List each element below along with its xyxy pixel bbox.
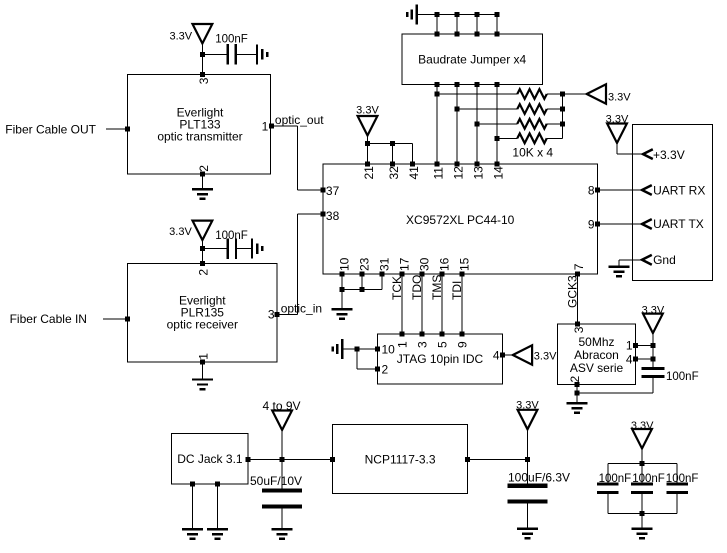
svg-text:100nF: 100nF	[666, 371, 699, 383]
svg-text:3: 3	[197, 77, 211, 84]
svg-text:2: 2	[382, 362, 389, 376]
svg-text:2: 2	[197, 269, 211, 276]
svg-text:38: 38	[326, 209, 340, 223]
svg-text:12: 12	[452, 166, 466, 180]
svg-text:XC9572XL PC44-10: XC9572XL PC44-10	[406, 213, 515, 227]
svg-text:4 to 9V: 4 to 9V	[262, 399, 300, 413]
svg-text:5: 5	[435, 341, 449, 348]
svg-text:optic_in: optic_in	[281, 302, 322, 316]
svg-text:7: 7	[572, 263, 586, 270]
svg-text:1: 1	[395, 341, 409, 348]
svg-text:100nF: 100nF	[666, 473, 699, 485]
svg-text:Abracon: Abracon	[574, 348, 619, 362]
svg-text:3.3V: 3.3V	[631, 420, 654, 432]
svg-text:TCK: TCK	[390, 276, 404, 300]
svg-text:31: 31	[378, 257, 392, 271]
svg-text:3: 3	[415, 341, 429, 348]
svg-text:13: 13	[472, 166, 486, 180]
svg-text:optic_out: optic_out	[275, 113, 324, 127]
svg-text:1: 1	[262, 119, 269, 133]
svg-text:3.3V: 3.3V	[169, 226, 192, 238]
svg-text:DC Jack 3.1: DC Jack 3.1	[177, 452, 243, 466]
svg-text:ASV serie: ASV serie	[570, 361, 624, 375]
svg-text:GCK3: GCK3	[565, 275, 579, 308]
svg-text:11: 11	[432, 167, 446, 180]
svg-text:16: 16	[438, 257, 452, 271]
svg-text:3.3V: 3.3V	[516, 400, 539, 412]
svg-text:4: 4	[493, 349, 500, 363]
svg-text:Gnd: Gnd	[653, 253, 676, 267]
svg-text:3: 3	[268, 308, 275, 322]
svg-text:100nF: 100nF	[215, 230, 248, 242]
svg-text:TMS: TMS	[430, 275, 444, 300]
svg-text:17: 17	[398, 257, 412, 271]
svg-text:1: 1	[626, 339, 633, 353]
svg-text:100uF/6.3V: 100uF/6.3V	[508, 470, 570, 484]
svg-text:JTAG 10pin IDC: JTAG 10pin IDC	[397, 352, 484, 366]
svg-text:TDO: TDO	[410, 275, 424, 300]
svg-text:optic receiver: optic receiver	[167, 318, 238, 332]
svg-text:3: 3	[572, 326, 586, 333]
svg-text:2: 2	[568, 376, 582, 383]
svg-text:10K x 4: 10K x 4	[512, 145, 553, 159]
svg-text:TDI: TDI	[450, 281, 464, 300]
svg-text:32: 32	[387, 166, 401, 180]
svg-text:37: 37	[326, 184, 340, 198]
svg-text:+3.3V: +3.3V	[653, 148, 685, 162]
svg-text:50Mhz: 50Mhz	[578, 335, 614, 349]
svg-text:23: 23	[358, 257, 372, 271]
svg-text:3.3V: 3.3V	[356, 104, 379, 116]
svg-text:41: 41	[407, 166, 421, 180]
svg-text:4: 4	[626, 352, 633, 366]
svg-text:10: 10	[338, 257, 352, 271]
svg-text:3.3V: 3.3V	[534, 350, 557, 362]
svg-text:3.3V: 3.3V	[608, 91, 631, 103]
svg-text:100nF: 100nF	[632, 473, 665, 485]
svg-text:3.3V: 3.3V	[606, 113, 629, 125]
svg-text:9: 9	[455, 341, 469, 348]
svg-text:100nF: 100nF	[599, 473, 632, 485]
svg-text:10: 10	[382, 342, 396, 356]
svg-text:NCP1117-3.3: NCP1117-3.3	[365, 452, 436, 466]
svg-text:9: 9	[588, 218, 595, 232]
svg-text:14: 14	[492, 166, 506, 180]
svg-text:Fiber Cable OUT: Fiber Cable OUT	[5, 122, 96, 136]
svg-text:UART TX: UART TX	[653, 217, 704, 231]
svg-text:30: 30	[418, 257, 432, 271]
svg-text:3.3V: 3.3V	[642, 304, 665, 316]
svg-text:8: 8	[588, 184, 595, 198]
svg-text:3.3V: 3.3V	[169, 30, 192, 42]
svg-text:Fiber Cable IN: Fiber Cable IN	[10, 312, 87, 326]
svg-text:1: 1	[197, 353, 211, 360]
svg-text:optic transmitter: optic transmitter	[157, 129, 242, 143]
svg-text:100nF: 100nF	[215, 33, 248, 45]
svg-text:21: 21	[362, 166, 376, 180]
svg-text:15: 15	[458, 257, 472, 271]
svg-text:UART RX: UART RX	[653, 183, 705, 197]
svg-text:Baudrate Jumper x4: Baudrate Jumper x4	[418, 52, 526, 66]
svg-text:50uF/10V: 50uF/10V	[250, 474, 302, 488]
svg-text:2: 2	[197, 165, 211, 172]
